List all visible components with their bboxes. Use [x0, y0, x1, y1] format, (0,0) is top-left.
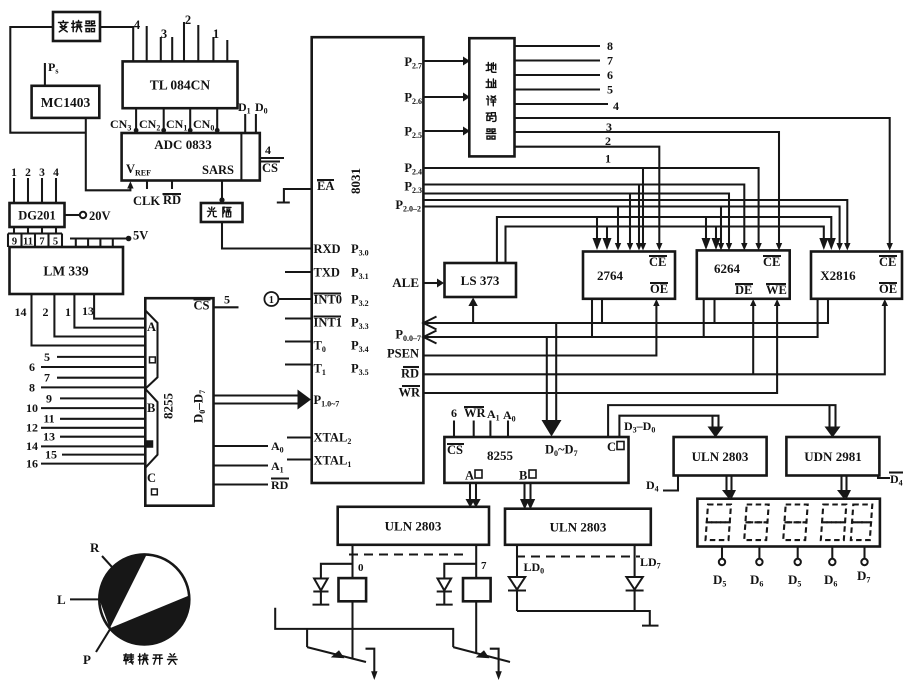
svg-text:PSEN: PSEN	[387, 347, 419, 361]
relay driver ULN 2803 (bottom right)	[505, 509, 651, 545]
wire MC1403 bottom to ADC VREF	[86, 118, 134, 190]
svg-text:8: 8	[607, 39, 613, 53]
svg-text:RD: RD	[401, 367, 419, 381]
dashed output rails	[349, 555, 640, 557]
svg-text:4: 4	[53, 167, 59, 179]
ADC CLK RD stubs	[133, 181, 181, 209]
svg-text:CE: CE	[649, 255, 666, 269]
svg-text:7: 7	[44, 371, 50, 385]
wire LS373 address bus line 2	[506, 227, 829, 264]
svg-text:DE: DE	[735, 283, 752, 297]
svg-text:1: 1	[605, 152, 611, 166]
T0 stub	[285, 340, 312, 342]
svg-text:CS: CS	[262, 161, 278, 175]
decoder output 2 to 6264 CE	[515, 132, 783, 251]
svg-text:20V: 20V	[89, 209, 111, 223]
svg-text:XTAL2: XTAL2	[314, 431, 352, 447]
svg-text:ALE: ALE	[392, 275, 419, 290]
svg-text:5: 5	[607, 83, 613, 97]
svg-text:1: 1	[213, 27, 219, 41]
wire P2.6 to decoder	[423, 93, 470, 102]
svg-text:6: 6	[29, 360, 35, 374]
svg-text:XTAL1: XTAL1	[314, 454, 352, 470]
svg-text:OE: OE	[650, 282, 668, 296]
svg-text:15: 15	[45, 448, 57, 462]
D3-D0 bus from port C to ULN2803 and UDN2981	[608, 405, 840, 437]
svg-text:8: 8	[29, 381, 35, 395]
svg-text:RXD: RXD	[314, 242, 341, 256]
svg-text:D0–D7: D0–D7	[191, 390, 208, 423]
svg-text:UDN 2981: UDN 2981	[804, 449, 861, 464]
ADC CS pin with 4 label	[260, 143, 284, 175]
svg-text:14: 14	[15, 305, 27, 319]
relay channel 7: wire diode coil	[436, 545, 491, 653]
SRAM 6264	[697, 250, 790, 298]
svg-text:12: 12	[26, 421, 38, 435]
svg-text:D3–D0: D3–D0	[624, 419, 655, 435]
svg-text:TL 084CN: TL 084CN	[150, 78, 211, 93]
switch contact 1	[307, 647, 377, 680]
svg-text:P: P	[83, 652, 91, 667]
svg-text:2: 2	[185, 13, 191, 27]
wire ADC SARS to optocoupler	[219, 181, 224, 204]
relay driver ULN 2803 (bottom left)	[338, 507, 489, 545]
svg-text:13: 13	[82, 304, 94, 318]
wire P0 bus up into LS373	[468, 298, 477, 324]
op-amp TL 084CN	[123, 61, 238, 108]
decoder outputs 8 7 6 5 4	[515, 39, 620, 113]
svg-text:3: 3	[39, 167, 45, 179]
svg-text:4: 4	[134, 18, 141, 32]
driver ULN 2803 (right of 8255)	[674, 437, 767, 476]
svg-text:OE: OE	[879, 282, 897, 296]
data bus D0-D7 from 8255 to 8031 P1	[214, 390, 312, 410]
svg-text:6: 6	[451, 406, 457, 420]
svg-text:8255: 8255	[487, 448, 514, 463]
8255 address pins A0 A1 RD	[214, 439, 290, 492]
pins D1 D0 into ADC right section	[238, 100, 268, 133]
input lines 5-16 into 8255 ports	[26, 350, 145, 471]
analog switch DG201	[10, 203, 65, 227]
wire P2.0-2 address line a	[423, 194, 732, 251]
svg-text:X2816: X2816	[820, 268, 856, 283]
svg-text:13: 13	[43, 430, 55, 444]
svg-text:5: 5	[44, 350, 50, 364]
svg-text:LS 373: LS 373	[461, 273, 500, 288]
port C label	[147, 471, 157, 495]
display common pins D5 D6 D5 D6 D7	[713, 547, 870, 589]
svg-text:ULN 2803: ULN 2803	[550, 520, 607, 535]
XTAL1 stub	[287, 458, 312, 460]
comparator LM 339	[10, 247, 124, 294]
svg-text:3: 3	[161, 27, 167, 41]
svg-text:11: 11	[43, 412, 54, 426]
wire PSEN to 2764 OE	[423, 299, 659, 356]
svg-text:14: 14	[26, 439, 38, 453]
svg-text:RD: RD	[163, 193, 181, 207]
svg-text:1: 1	[65, 305, 71, 319]
wire LS373 address bus line 1	[497, 217, 836, 263]
svg-text:CLK: CLK	[133, 194, 160, 208]
rotary switch pie 转换开关	[57, 540, 189, 667]
8255 no2 top stubs 6 WR A1 A0	[451, 406, 516, 437]
svg-text:ULN 2803: ULN 2803	[692, 449, 749, 464]
svg-text:8031: 8031	[348, 168, 363, 194]
wire optocoupler to 8031 RXD	[222, 222, 312, 249]
wire P2.0-2 address line c	[423, 207, 842, 251]
LED channel LD7	[626, 545, 661, 611]
relay channel 0: wire diode coil	[313, 545, 367, 659]
D4 terminal left	[646, 476, 678, 494]
svg-text:MC1403: MC1403	[41, 95, 91, 110]
svg-text:A: A	[465, 469, 474, 483]
data bus branch down to 8255 no2	[542, 323, 562, 437]
svg-text:2: 2	[43, 305, 49, 319]
svg-text:6264: 6264	[714, 261, 741, 276]
svg-text:4: 4	[613, 99, 619, 113]
common rail and switches	[275, 608, 453, 647]
INT0 stub with circled 1	[264, 292, 311, 306]
svg-text:C: C	[147, 471, 156, 485]
svg-text:10: 10	[26, 401, 38, 415]
address decoder 地址译码器	[469, 38, 514, 156]
svg-text:EA: EA	[317, 179, 334, 193]
T1 stub	[285, 363, 312, 365]
DG201 to LM339 pin cells 9 11 7 5	[8, 227, 62, 248]
wire ALE to LS373	[423, 279, 444, 288]
svg-text:CS: CS	[194, 299, 210, 313]
8255 CS wire labeled 5	[214, 293, 239, 308]
svg-text:2764: 2764	[597, 268, 624, 283]
svg-text:ULN 2803: ULN 2803	[385, 519, 442, 534]
voltage reference MC1403	[32, 86, 100, 118]
latch LS 373	[445, 263, 517, 297]
svg-text:ADC 0833: ADC 0833	[154, 137, 212, 152]
svg-text:5: 5	[224, 293, 230, 307]
LED rail to ground	[517, 611, 659, 626]
svg-text:INT1: INT1	[314, 316, 342, 330]
microcontroller 8031	[312, 37, 424, 483]
wire RD to 6264 OE and X2816 OE	[423, 299, 888, 374]
driver UDN 2981	[786, 437, 879, 476]
switch contact 2	[453, 647, 510, 680]
wire P2.5 to decoder	[423, 127, 470, 136]
node Ps input stub	[45, 60, 59, 86]
wire P2.0-2 address line b	[423, 200, 850, 251]
svg-text:CE: CE	[879, 255, 896, 269]
svg-text:2: 2	[25, 167, 31, 179]
svg-text:WR: WR	[398, 386, 421, 400]
wires TL084 bottom to ADC with CN labels	[110, 108, 220, 133]
EEPROM X2816	[811, 252, 902, 299]
svg-text:INT0: INT0	[314, 293, 342, 307]
svg-text:7: 7	[607, 54, 613, 68]
P0 data bus lines below memories	[424, 299, 829, 344]
svg-text:1: 1	[11, 167, 17, 179]
svg-text:7: 7	[481, 560, 487, 572]
PPI 8255 no2	[444, 437, 628, 483]
arrows port A and port B to ULN drivers	[466, 483, 536, 510]
segment display block	[697, 499, 880, 547]
port A connector trapezoid	[145, 310, 157, 388]
wire WR to 6264 WE	[423, 299, 780, 393]
PPI 8255 (left)	[145, 298, 213, 506]
svg-text:5V: 5V	[133, 229, 148, 243]
svg-text:B: B	[519, 469, 527, 483]
5V rail above LM339	[70, 229, 148, 248]
TL084 top pin group with labels 4 3 2 1	[134, 13, 227, 61]
svg-text:WE: WE	[766, 283, 787, 297]
EPROM 2764	[583, 252, 675, 299]
svg-text:D0~D7: D0~D7	[545, 443, 578, 459]
wire P2.4 address line	[423, 168, 761, 251]
svg-text:A: A	[147, 320, 156, 334]
XTAL2 stub	[287, 436, 312, 438]
DG201 top pins 1 2 3 4	[11, 167, 59, 203]
svg-text:4: 4	[265, 143, 271, 157]
LED channel LD0	[508, 545, 544, 611]
svg-text:DG201: DG201	[18, 209, 56, 223]
LM339 bottom pins 14 2 1 13 routed to 8255 port A	[15, 294, 146, 346]
svg-text:16: 16	[26, 457, 38, 471]
D4 terminal right	[878, 472, 903, 488]
INT1 stub	[285, 317, 312, 319]
svg-text:WR: WR	[464, 406, 487, 420]
wire converter left loop to MC1403 bottom node	[10, 27, 86, 133]
svg-text:CS: CS	[447, 443, 463, 457]
port B connector trapezoid	[145, 389, 157, 468]
converter box 变换器	[53, 12, 100, 41]
arrows ULN2803 and UDN2981 to display	[722, 476, 851, 500]
svg-text:0: 0	[358, 562, 364, 574]
20V terminal	[65, 209, 111, 223]
svg-text:9: 9	[46, 392, 52, 406]
svg-text:R: R	[90, 540, 100, 555]
optocoupler 光隔	[201, 203, 243, 222]
ADC 0833	[122, 133, 260, 181]
svg-text:RD: RD	[271, 478, 289, 492]
svg-text:TXD: TXD	[314, 266, 340, 280]
svg-text:C: C	[607, 440, 616, 454]
TXD stub	[285, 271, 312, 273]
wire converter right to TL084 top	[100, 27, 133, 61]
decoder output 1 to 2764 CE	[515, 147, 663, 251]
svg-text:L: L	[57, 592, 66, 607]
wire P2.3 address line	[423, 185, 747, 251]
svg-text:8255: 8255	[161, 393, 176, 420]
svg-text:B: B	[147, 401, 155, 415]
svg-text:LM 339: LM 339	[43, 264, 89, 279]
svg-text:SARS: SARS	[202, 163, 234, 177]
svg-text:6: 6	[607, 68, 613, 82]
EA ground symbol	[277, 189, 312, 203]
display digits	[706, 505, 731, 541]
wire P2.7 to decoder	[423, 57, 470, 66]
svg-text:CE: CE	[763, 255, 780, 269]
svg-text:1: 1	[269, 295, 274, 306]
decoder output 3 to X2816 CE	[515, 118, 893, 251]
